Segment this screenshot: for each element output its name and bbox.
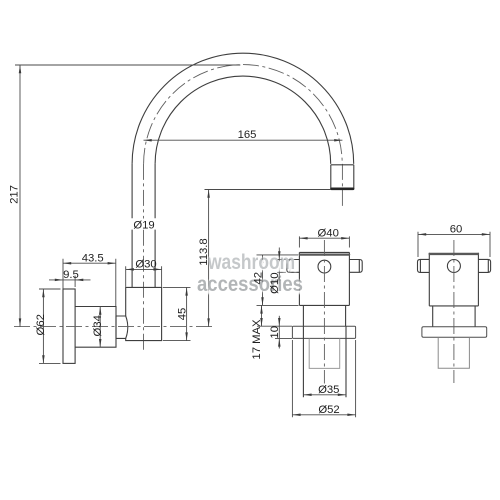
dimension Ø34 arrows xyxy=(99,307,102,348)
valve side screw circle xyxy=(447,260,460,273)
valve front centerline xyxy=(323,240,325,384)
dimension 9.5 line xyxy=(49,279,91,281)
spout vertical centerline xyxy=(143,164,145,353)
dimension 217 extension top line xyxy=(15,64,240,66)
svg-text:43.5: 43.5 xyxy=(82,252,104,264)
dimension 10 line xyxy=(278,316,280,349)
faucet horizontal centerline xyxy=(14,326,213,328)
dimension 42 arrows xyxy=(261,255,264,306)
dimension 43.5 arrows xyxy=(63,262,116,265)
valve front screw circle xyxy=(318,260,331,273)
svg-text:10: 10 xyxy=(269,326,281,339)
dimension Ø30 extension lines xyxy=(126,266,162,287)
valve side centerline xyxy=(453,240,455,383)
valve side left lug xyxy=(418,259,430,272)
dimension 165 line xyxy=(144,139,343,141)
valve side neck xyxy=(433,306,475,327)
svg-text:Ø62: Ø62 xyxy=(35,314,47,335)
dimension Ø52 extension lines xyxy=(292,340,355,417)
dimension Ø30 line xyxy=(126,268,162,270)
dimension 10 extension line xyxy=(275,337,292,339)
valve side right lug xyxy=(478,259,490,272)
svg-text:60: 60 xyxy=(450,224,463,236)
dimension Ø62 arrows xyxy=(42,289,45,363)
svg-text:17 MAX: 17 MAX xyxy=(251,319,263,360)
svg-text:Ø34: Ø34 xyxy=(92,315,104,336)
aerator outlet xyxy=(331,165,354,189)
spout centerline arc xyxy=(144,65,343,164)
dimension Ø62 extension lines xyxy=(39,289,61,363)
svg-text:Ø40: Ø40 xyxy=(318,227,339,239)
dimension 43.5 line xyxy=(63,262,116,264)
dimension Ø52 arrows xyxy=(292,414,355,417)
dimension 60 line xyxy=(418,233,490,235)
dimension Ø35 line xyxy=(303,394,346,396)
dimension 9.5 arrows xyxy=(55,279,84,282)
valve front body xyxy=(299,252,349,305)
spout left pipe inner line xyxy=(154,164,156,288)
faucet horizontal body xyxy=(75,307,116,348)
dimension 60 arrows xyxy=(418,233,490,236)
svg-text:113.8: 113.8 xyxy=(198,238,210,265)
step intersection arc xyxy=(126,316,128,338)
dimension 217 line xyxy=(19,65,21,327)
dimension 45 extension lines xyxy=(163,287,191,340)
valve front neck xyxy=(303,305,345,326)
dimension Ø10 extension lines xyxy=(277,260,286,273)
valve front right lug xyxy=(349,260,362,273)
dimension Ø40 arrows xyxy=(299,237,349,240)
valve side body xyxy=(429,253,478,306)
dimension Ø52 line xyxy=(292,414,355,416)
dimension 113.8 line xyxy=(208,190,210,327)
faucet vertical cylinder body xyxy=(126,287,162,340)
dimension 43.5 extension lines xyxy=(63,259,116,306)
svg-text:Ø30: Ø30 xyxy=(135,258,156,270)
dimension Ø10 arrows xyxy=(278,251,281,280)
aerator thick bottom edge xyxy=(332,188,354,191)
dimension Ø35 arrows xyxy=(303,394,346,397)
svg-text:Ø19: Ø19 xyxy=(133,220,154,232)
dimension 42 line xyxy=(262,255,264,306)
svg-text:165: 165 xyxy=(238,129,257,141)
dimension 217 arrows xyxy=(19,65,22,327)
valve front thick top edge xyxy=(300,253,349,255)
dimension 10 arrows xyxy=(278,318,281,347)
faucet wall flange plate xyxy=(63,289,75,363)
dimension 45 line xyxy=(186,287,188,340)
dimension 165 arrows xyxy=(144,139,343,142)
dimension 113.8 extension line xyxy=(205,189,331,191)
svg-text:9.5: 9.5 xyxy=(63,269,79,281)
spout left pipe outer line xyxy=(131,164,133,288)
dimension Ø40 extension lines xyxy=(299,236,349,247)
spout inner arc xyxy=(155,76,331,164)
valve front recess xyxy=(309,338,340,368)
valve front sleeve lines xyxy=(303,326,346,397)
dimension 17 MAX arrows xyxy=(260,305,263,326)
svg-text:Ø52: Ø52 xyxy=(318,404,339,416)
dimension 17 MAX line xyxy=(261,305,263,326)
dimension 45 arrows xyxy=(185,287,188,340)
dimension Ø62 line xyxy=(42,289,44,363)
dimension 60 extension lines xyxy=(418,232,490,257)
svg-text:Ø35: Ø35 xyxy=(318,384,339,396)
svg-text:217: 217 xyxy=(8,185,20,204)
outlet centerline xyxy=(341,164,343,209)
dimension 113.8 arrows xyxy=(207,190,210,327)
valve side flange xyxy=(422,327,487,338)
valve front flange xyxy=(292,326,355,338)
valve side stem xyxy=(438,337,469,368)
dimension Ø10 line xyxy=(278,248,280,285)
valve front left lug xyxy=(287,260,300,273)
svg-text:45: 45 xyxy=(177,308,189,321)
dimension Ø30 arrows xyxy=(126,268,162,271)
valve side thick top edge xyxy=(430,253,478,255)
dimension Ø40 line xyxy=(299,237,349,239)
connector step xyxy=(116,316,126,338)
dimension Ø34 line xyxy=(99,307,101,348)
dimension 17 MAX extension line xyxy=(257,325,292,327)
dimension 42 extension lines xyxy=(257,255,299,306)
spout outer arc xyxy=(132,53,354,164)
dimension 9.5 extension line xyxy=(74,276,76,288)
